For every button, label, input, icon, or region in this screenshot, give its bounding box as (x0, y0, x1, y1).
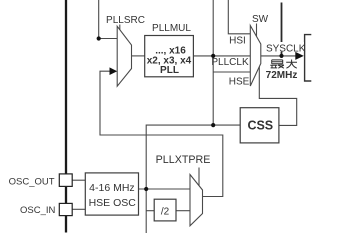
chip boundary thick line (65, 0, 67, 233)
svg-text:PLLMUL: PLLMUL (152, 23, 191, 34)
wire HSI vertical to PLLSRC mux (99, 0, 118, 39)
junction dot SYSCLK (279, 54, 283, 58)
wire PLLSRC mux output to PLL box (132, 55, 145, 57)
svg-text:4-16 MHz: 4-16 MHz (89, 182, 135, 194)
arrowhead SYSCLK (295, 52, 304, 60)
svg-text:PLL: PLL (160, 65, 179, 76)
wire into /2 box (146, 210, 154, 212)
svg-text:CSS: CSS (247, 119, 273, 133)
mux SW (250, 26, 260, 87)
svg-text:OSC_OUT: OSC_OUT (9, 176, 55, 187)
svg-text:SW: SW (252, 14, 269, 25)
wire SYSCLK output from SW mux (261, 55, 297, 57)
label 最大 (drawn glyphs) (270, 60, 297, 69)
wire CSS input line from HSE junction (146, 125, 240, 189)
box CSS (240, 108, 279, 143)
svg-text:HSE OSC: HSE OSC (89, 197, 137, 209)
junction dot HSE (144, 187, 148, 191)
wire OSC_IN pin to HSE OSC box (72, 208, 85, 210)
svg-text:72MHz: 72MHz (266, 70, 298, 81)
wire SW select tick (256, 24, 258, 37)
wire SYSCLK vertical from top edge (281, 3, 283, 43)
wire PLLXTPRE output feed to PLLSRC mux (arrow input) (100, 71, 223, 196)
bracket SYSCLK destinations (305, 35, 312, 81)
wire HSE down-branch to /2 divider (145, 189, 147, 233)
wire SW mux bottom to CSS loop (259, 67, 296, 126)
junction dot PLLCLK (211, 54, 215, 58)
box PLL multiplier (145, 36, 194, 77)
wire HSE OSC output to PLLXTPRE mux (139, 188, 191, 190)
svg-text:PLLCLK: PLLCLK (211, 57, 249, 68)
label SYSCLK (white backing over vertical wire) (267, 42, 304, 52)
svg-text:HSI: HSI (229, 36, 246, 47)
svg-text:HSE: HSE (229, 76, 250, 87)
box /2 divider (154, 199, 176, 221)
mux PLLXTPRE (190, 175, 203, 226)
wire HSI from top edge into SW mux (228, 0, 250, 34)
wire HSE branch into SW mux (213, 71, 250, 73)
arrowhead into PLLSRC mux (110, 67, 118, 75)
wire /2 output to PLLXTPRE mux (176, 210, 190, 212)
wire vertical from top edge through PLLCLK dot down to CSS line (212, 0, 214, 125)
svg-text:/2: /2 (161, 206, 170, 217)
svg-text:OSC_IN: OSC_IN (20, 205, 56, 216)
wire PLLCLK from PLL box to SW mux (193, 55, 250, 57)
svg-text:PLLSRC: PLLSRC (106, 15, 145, 26)
svg-text:PLLXTPRE: PLLXTPRE (156, 154, 211, 166)
box HSE OSC (85, 173, 138, 215)
junction dot CSS line (211, 123, 215, 127)
wire OSC_OUT pin to HSE OSC box (72, 179, 85, 181)
wire PLLXTPRE select tick (198, 168, 200, 187)
mux PLLSRC (117, 26, 131, 86)
pin OSC_OUT (59, 174, 72, 187)
pin OSC_IN (59, 203, 72, 215)
junction dot HSI (97, 36, 101, 40)
wire PLLSRC select tick (119, 25, 121, 31)
svg-text:SYSCLK: SYSCLK (266, 44, 306, 55)
